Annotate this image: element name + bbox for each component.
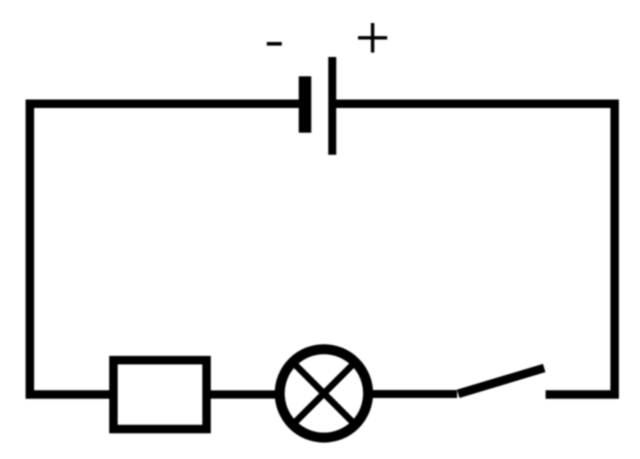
wire: lamp to switch — [368, 390, 457, 398]
switch S1: open blade — [458, 368, 544, 394]
label: plus sign over positive plate — [358, 23, 387, 53]
wire: left branch (top-left segment, left vertical, bottom-left segment) — [30, 104, 303, 395]
wire: right branch (top-right segment, right vertical, bottom-right segment) — [332, 104, 615, 395]
battery B1: positive plate (long thin bar) — [328, 57, 336, 155]
resistor (rectangular box) — [113, 360, 206, 429]
battery B1: negative plate (short thick bar) — [299, 76, 312, 132]
lamp (circle with X) — [280, 349, 368, 437]
wire: resistor to lamp — [206, 390, 280, 398]
label: minus sign over negative plate — [267, 42, 282, 46]
